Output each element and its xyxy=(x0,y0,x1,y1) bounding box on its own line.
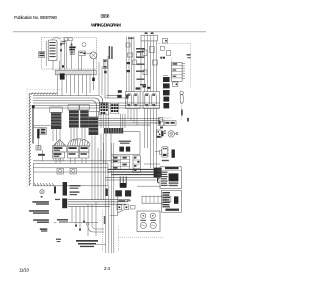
ground symbol (screw) xyxy=(40,190,44,194)
chassis long wire xyxy=(33,160,120,162)
wire terminals (bottom drops) xyxy=(75,225,77,227)
defrost heater (dark, bottom-left) xyxy=(62,198,67,208)
ground shield hatched rail (left) xyxy=(29,93,31,185)
water valve solenoid L1 xyxy=(90,52,97,59)
run capacitor C1 xyxy=(120,176,127,187)
wire stubs to strip xyxy=(53,56,82,70)
note text above legend xyxy=(162,160,169,161)
relay R1 xyxy=(126,92,141,109)
relay R1 pin drops xyxy=(128,108,137,125)
tiny label (module pins) xyxy=(62,41,66,42)
svg-text:WIRING DIAGRAM: WIRING DIAGRAM xyxy=(91,23,121,28)
ice maker control module U7 xyxy=(48,40,57,61)
dotted top run xyxy=(27,89,62,91)
motor M2 circle xyxy=(150,222,156,228)
connector P6 (ice maker left) xyxy=(39,52,45,58)
wire labels (harness) xyxy=(128,38,146,86)
small label left xyxy=(56,239,61,240)
holding switch (ice maker) xyxy=(79,51,86,56)
overload protector (dark labels) xyxy=(115,190,122,196)
dotted run to door (right) xyxy=(158,43,192,45)
connector K4 (dark hatched) xyxy=(88,111,99,135)
DIP terminal rows xyxy=(111,156,130,169)
wire arc to compressor xyxy=(88,226,104,232)
motor M1 circle xyxy=(140,222,146,228)
riser wires (center-left) xyxy=(92,136,114,254)
compressor box with motors xyxy=(137,211,160,231)
wire from switch to valve xyxy=(85,52,90,54)
inner shelf lines xyxy=(33,167,108,169)
bus end terminal (right) xyxy=(159,118,163,123)
label (door) xyxy=(187,54,191,56)
splice mark (left of heater) xyxy=(54,186,56,193)
compressor label text xyxy=(76,240,98,247)
start relay / ptc parts xyxy=(117,200,135,212)
terminal strip TB1 (hatched bar) xyxy=(55,70,96,75)
relay R2 xyxy=(136,87,160,108)
wire channel through board xyxy=(101,112,125,163)
display header J2 (row of pins) xyxy=(141,32,157,41)
inline splice (hatched box) xyxy=(36,146,41,150)
ladder marks left of module xyxy=(163,76,168,81)
main supply bus wires xyxy=(33,96,160,117)
wire: inner vertical rail xyxy=(45,41,47,66)
bottom left corner wires xyxy=(96,244,106,246)
splice knot (dark) xyxy=(154,168,162,178)
dashed bottom run xyxy=(118,236,163,238)
aux box below module xyxy=(173,82,178,87)
defrost heater element (dark bar) xyxy=(63,182,67,196)
transformer T2 (domed hatched) xyxy=(68,139,91,158)
heater resistor R9 xyxy=(82,43,86,47)
wire loop from module top xyxy=(52,38,61,40)
wire stub below splice xyxy=(42,150,44,161)
transformer lead stubs xyxy=(56,158,86,163)
header rule xyxy=(13,31,206,33)
control board outline (center) xyxy=(111,132,140,155)
start winding circle S xyxy=(141,213,146,218)
connector K1 (dark hatched) xyxy=(50,107,62,129)
dotted drop to connector stack xyxy=(171,58,173,77)
lamp sockets row xyxy=(57,168,63,174)
transformer T1 (hatched roof) xyxy=(52,140,66,158)
thermistor RT2 (dark) xyxy=(126,147,130,152)
wire into compressor xyxy=(110,197,118,215)
small dark pair top xyxy=(160,57,162,59)
dotted drop from sensor xyxy=(181,103,183,121)
wire end terminals (pre-relay) xyxy=(143,86,146,88)
run winding circle R xyxy=(150,213,155,218)
bottom riser wires xyxy=(72,202,96,236)
board caption xyxy=(119,141,131,142)
module pin ticks (right side) xyxy=(182,64,185,79)
heater label text xyxy=(70,185,81,186)
wire bundle top-middle verticals xyxy=(99,56,108,98)
sensor marks on top edge xyxy=(64,38,68,41)
cabinet dotted rail (left) xyxy=(26,88,28,188)
connector K2 (dark hatched) xyxy=(68,105,79,128)
power bus (thick dark) xyxy=(108,169,161,174)
wire stub above splice xyxy=(38,138,40,146)
wire column right xyxy=(71,41,73,69)
relay R2 pin drops xyxy=(145,108,157,168)
inline components on harness xyxy=(143,50,147,55)
hatched bottom edge (left) xyxy=(34,183,54,186)
label with leader (defrost) xyxy=(57,219,68,221)
thermistor RT1 (dark) xyxy=(119,147,124,152)
label (sensor) xyxy=(181,110,183,116)
cabinet lamp box (big outline) xyxy=(33,163,108,185)
connector K3 (dark hatched) xyxy=(80,105,90,128)
junction box (top right of harness) xyxy=(163,39,168,44)
dashed shield line (bottom) xyxy=(102,210,104,252)
crimp splice (left) xyxy=(40,128,46,135)
ice maker enclosure (dashed box) xyxy=(42,38,97,70)
board connector bar (dark hatched) xyxy=(104,128,123,134)
inline box mid harness xyxy=(132,60,136,65)
terminal dot grid D2 xyxy=(110,103,119,114)
label node above grid D2 xyxy=(117,95,121,98)
tick marks left of legend xyxy=(158,170,160,183)
svg-text:Publication No. 09087990: Publication No. 09087990 xyxy=(14,15,58,20)
wire: left feed corner xyxy=(32,107,34,143)
dispenser module (right vertical) xyxy=(172,62,183,81)
hatch under T1 xyxy=(53,158,64,161)
svg-text:24: 24 xyxy=(104,266,110,272)
svg-text:E23CS78: E23CS78 xyxy=(101,14,111,19)
limit switch (right) xyxy=(155,147,175,158)
splice bar dark xyxy=(37,129,39,139)
wire valve stem xyxy=(92,59,94,90)
relay coil (tall) xyxy=(133,156,140,173)
label text block (ice maker) xyxy=(69,46,75,48)
terminal cover box (bottom right top strip) xyxy=(142,196,163,203)
splice bead (bottom) xyxy=(86,223,89,226)
label H node xyxy=(38,154,45,156)
dotted vertical door rail xyxy=(190,44,192,89)
fan motor M3 (double circle) xyxy=(156,130,177,138)
label left of heater xyxy=(55,199,60,200)
legend table 2 (component key) xyxy=(161,190,181,212)
lower bus wires (center) xyxy=(98,119,160,126)
junction node (valve) xyxy=(92,78,95,81)
svg-text:11/10: 11/10 xyxy=(19,268,29,273)
wire stubs from knot xyxy=(157,177,159,182)
vertical label (right of dashes) xyxy=(104,216,105,224)
sensor bulb (right) xyxy=(180,91,183,94)
junction bead xyxy=(62,65,64,67)
label node (bus junction) xyxy=(118,90,122,93)
wire columns center xyxy=(60,40,62,70)
legend table 1 (wire color code) xyxy=(160,167,181,189)
harness vertical wires (top center) xyxy=(127,37,157,93)
wire labels top-middle (vertical) xyxy=(109,46,111,59)
notes text (left, right-aligned) xyxy=(29,196,49,232)
inline connector (top center) xyxy=(128,53,133,57)
wires: drops from terminal strip to bus xyxy=(57,75,59,96)
fill socket plug (dark) xyxy=(60,73,65,79)
aux box under label xyxy=(70,51,75,54)
terminal dot grid D1 xyxy=(100,102,109,115)
right column row: switch boxes xyxy=(155,118,189,126)
wire drops from connectors xyxy=(53,128,85,142)
hatched top run xyxy=(31,92,57,94)
wire pair into splice xyxy=(33,125,54,127)
inline fuse on riser xyxy=(103,60,107,69)
connector stack (dark, right) xyxy=(163,77,170,82)
bottom distribution bus xyxy=(68,199,130,206)
